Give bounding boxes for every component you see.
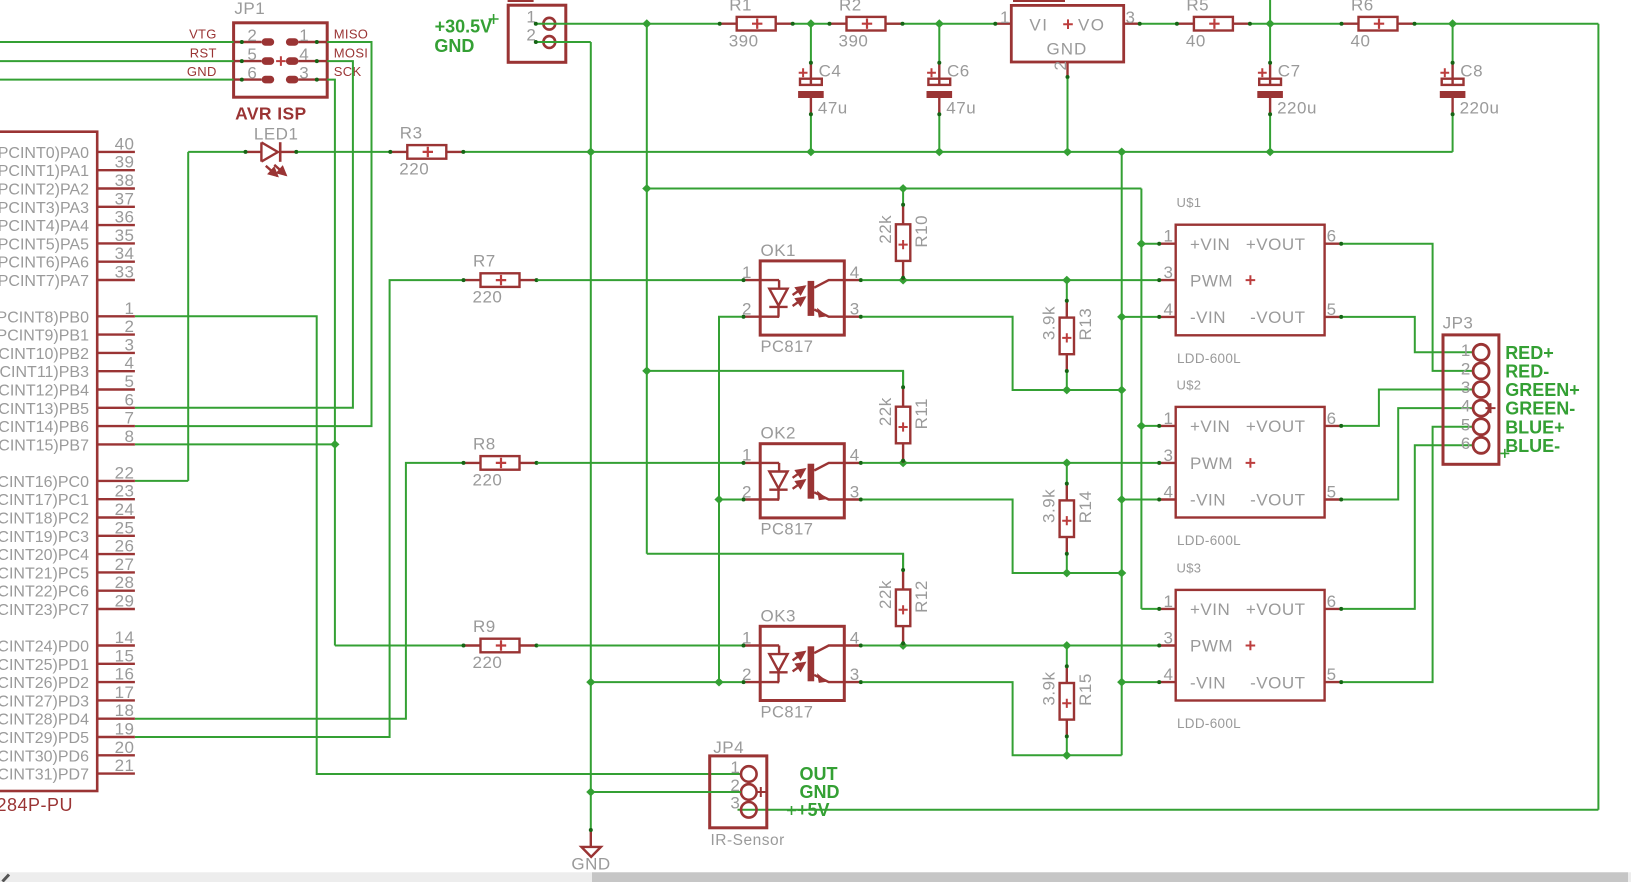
- svg-text:+5V: +5V: [797, 800, 830, 820]
- DC-DC converter U2 pin GND stub: [1066, 62, 1068, 79]
- capacitor C8 pin connection dots: [1451, 61, 1455, 65]
- wire U$3 +VOUT to BLUE-: [1343, 445, 1473, 609]
- svg-text:47u: 47u: [818, 99, 848, 118]
- connector JP3 origin cross: [1486, 403, 1496, 413]
- capacitor C6 pin connection dots: [937, 61, 941, 65]
- wire R10 top bus: [647, 188, 1142, 190]
- IC U1 pin 6 (PB5) stub: [97, 407, 135, 409]
- connector JP1 pin 5/4 connection dots: [240, 59, 244, 63]
- connector JP3 pad pin 3: [1473, 382, 1489, 398]
- DC-DC converter U2 pin VO stub: [1124, 23, 1142, 25]
- IC U1 pin 7 (PB6) stub: [97, 425, 135, 427]
- wire RST to left edge: [0, 60, 234, 62]
- capacitor C8 leads: [1451, 61, 1453, 85]
- svg-text:1: 1: [730, 758, 740, 777]
- DC-DC converter U2 pin VI stub: [994, 23, 1012, 25]
- capacitor C4 bottom wire: [810, 116, 812, 152]
- svg-text:1: 1: [1000, 8, 1010, 27]
- LED LED1 emission arrows: [266, 166, 278, 176]
- node junction R15 bottom: [1062, 751, 1071, 760]
- svg-text:VTG: VTG: [189, 27, 217, 42]
- resistor R14 pin connection dots: [1065, 482, 1069, 486]
- svg-text:ATmega1284P-PU: ATmega1284P-PU: [0, 795, 73, 815]
- IC U1 pin 4 (PB3) stub: [97, 370, 135, 372]
- resistor R14 body: [1060, 500, 1074, 537]
- IC U1 pin 3 (PB2) stub: [97, 352, 135, 354]
- svg-text:3: 3: [299, 63, 309, 82]
- capacitor C7 plus mark: [1258, 68, 1267, 77]
- wire GND bus horizontal: [464, 151, 1453, 153]
- svg-text:6: 6: [247, 63, 257, 82]
- capacitor C6 plus mark: [927, 68, 936, 77]
- resistor R11 pin connection dots: [901, 385, 905, 389]
- wire right rail bottom to JP4 pin 3: [738, 809, 1599, 811]
- svg-text:3: 3: [730, 794, 740, 813]
- capacitor C7 top plate: [1259, 79, 1281, 85]
- svg-text:3: 3: [1164, 263, 1174, 282]
- svg-text:40: 40: [1351, 31, 1371, 50]
- connector JP2 body: [508, 5, 566, 62]
- svg-text:(PCINT1)PA1: (PCINT1)PA1: [0, 163, 89, 180]
- svg-text:14: 14: [115, 628, 135, 647]
- LED driver U$2 body: [1176, 407, 1325, 518]
- LED driver U$2 origin cross: [1246, 458, 1256, 468]
- optocoupler OK1 body: [760, 261, 844, 335]
- optocoupler OK1 pin connection dots: [742, 278, 746, 282]
- wire PB7 to SCK riser: [135, 443, 335, 445]
- svg-text:36: 36: [115, 208, 135, 227]
- connector JP1 pad pin 3: [286, 76, 299, 84]
- capacitor C6 leads: [938, 61, 940, 85]
- wire R5 to R6 segment: [1251, 23, 1341, 25]
- svg-text:5: 5: [1461, 415, 1471, 434]
- capacitor C8 plus mark: [1440, 68, 1449, 77]
- wire U$1 +VOUT to RED-: [1343, 244, 1473, 371]
- svg-text:6: 6: [1327, 227, 1337, 246]
- optocoupler OK3 body: [760, 626, 844, 700]
- svg-text:OUT: OUT: [800, 764, 838, 784]
- wire +30.5V rail segment to R1: [647, 23, 719, 25]
- svg-text:R13: R13: [1076, 308, 1095, 341]
- svg-text:+VIN: +VIN: [1190, 600, 1230, 619]
- wire OK1 pin2 to cathode chain: [719, 317, 742, 682]
- capacitor C8 top wire: [1452, 24, 1454, 62]
- svg-text:U$3: U$3: [1177, 560, 1202, 575]
- resistor R8 body: [481, 456, 520, 470]
- svg-text:(PCINT21)PC5: (PCINT21)PC5: [0, 565, 89, 582]
- svg-text:OK3: OK3: [761, 606, 797, 625]
- svg-text:MISO: MISO: [334, 27, 368, 42]
- svg-text:+VOUT: +VOUT: [1246, 235, 1306, 254]
- svg-text:LED1: LED1: [254, 125, 299, 144]
- scrollbar track: [0, 872, 1631, 882]
- wire GND to left edge: [0, 79, 234, 81]
- svg-text:17: 17: [115, 683, 135, 702]
- node junction SCK / PB7: [330, 440, 339, 449]
- connector JP4 pad pin 2: [741, 784, 757, 800]
- svg-text:(PCINT31)PD7: (PCINT31)PD7: [0, 767, 89, 784]
- resistor R9 origin cross: [496, 640, 506, 650]
- optocoupler OK2 body: [760, 444, 844, 518]
- wire R2 to DC-DC VI: [886, 23, 994, 25]
- svg-text:15: 15: [115, 646, 135, 665]
- resistor R15 body: [1060, 683, 1074, 720]
- IC U1 pin 29 (PC7) stub: [97, 608, 135, 610]
- wire -VIN chain vertical: [1121, 152, 1123, 755]
- wire -VIN stub U$1: [1122, 316, 1158, 318]
- svg-text:PC817: PC817: [761, 521, 814, 539]
- wire GND stem vertical: [590, 42, 592, 829]
- svg-text:4: 4: [1461, 397, 1471, 416]
- optocoupler OK2 light arrows: [793, 469, 805, 478]
- svg-text:(PCINT11)PB3: (PCINT11)PB3: [0, 364, 89, 381]
- svg-text:-VIN: -VIN: [1190, 308, 1226, 327]
- connector JP4 pad pin 3: [741, 802, 757, 818]
- resistor R13 leads: [1066, 299, 1068, 317]
- svg-text:(PCINT5)PA5: (PCINT5)PA5: [0, 236, 89, 253]
- svg-text:4: 4: [850, 446, 860, 465]
- resistor R15 wire stubs: [1066, 646, 1068, 665]
- node junction rail / R11 bus: [642, 367, 651, 376]
- resistor R12 pin connection dots: [901, 568, 905, 572]
- svg-text:R14: R14: [1076, 491, 1095, 524]
- svg-text:RED-: RED-: [1505, 362, 1549, 382]
- optocoupler OK3 pin 1: [742, 644, 779, 646]
- svg-text:R6: R6: [1351, 0, 1374, 14]
- IC U1 pin 33 (PA7) stub: [97, 279, 135, 281]
- svg-text:220u: 220u: [1277, 99, 1317, 118]
- svg-text:LDD-600L: LDD-600L: [1177, 533, 1241, 548]
- svg-text:+VOUT: +VOUT: [1246, 600, 1306, 619]
- svg-text:21: 21: [115, 756, 135, 775]
- node junction R2/C6/VI: [935, 19, 944, 28]
- LED driver U$1 pin connection dots: [1157, 242, 1161, 246]
- node junction R10 top: [899, 184, 908, 193]
- node junction +VIN U$1: [1137, 239, 1146, 248]
- resistor R13 origin cross: [1062, 333, 1071, 342]
- svg-text:6: 6: [125, 390, 135, 409]
- resistor R9 body: [481, 639, 520, 653]
- connector JP1 body: [234, 23, 328, 97]
- wire OK3 pin3 route: [862, 682, 1121, 755]
- svg-text:22k: 22k: [876, 215, 895, 244]
- wire PD4 to R8 riser: [135, 463, 463, 719]
- IC U1 pin 19 (PD5) stub: [97, 736, 135, 738]
- IC U1 pin 16 (PD2) stub: [97, 681, 135, 683]
- svg-text:R9: R9: [473, 617, 496, 636]
- optocoupler OK2 phototransistor: [808, 464, 815, 499]
- svg-text:40: 40: [1186, 31, 1206, 50]
- IC U1 pin 34 (PA6) stub: [97, 261, 135, 263]
- svg-text:R10: R10: [912, 215, 931, 248]
- node junction chain / R14 bottom bus: [1117, 569, 1126, 578]
- IC U1 pin 2 (PB1) stub: [97, 333, 135, 335]
- resistor R14 wire stubs: [1066, 463, 1068, 482]
- resistor R8 origin cross: [496, 458, 506, 468]
- wire R6 to right rail: [1415, 23, 1598, 25]
- svg-text:(PCINT30)PD6: (PCINT30)PD6: [0, 748, 89, 765]
- node junction GND bus / DC-DC GND: [1063, 148, 1072, 157]
- resistor R7 pin connection dots: [462, 278, 466, 282]
- svg-text:PC817: PC817: [761, 338, 814, 356]
- svg-text:390: 390: [839, 31, 869, 50]
- resistor R14 leads: [1066, 482, 1068, 500]
- wire R9 feed from SCK riser: [335, 645, 463, 647]
- svg-text:GND: GND: [1047, 39, 1088, 58]
- svg-text:4: 4: [299, 45, 309, 64]
- svg-text:7: 7: [125, 409, 135, 428]
- connector JP1 pin 2/1 connection dots: [240, 40, 244, 44]
- svg-text:38: 38: [115, 171, 135, 190]
- LED driver U$3 pin stubs: [1157, 608, 1175, 610]
- optocoupler OK3 internal LED: [778, 646, 780, 655]
- svg-text:(PCINT6)PA6: (PCINT6)PA6: [0, 255, 89, 272]
- wire U$1 -VOUT to RED+: [1343, 317, 1473, 352]
- optocoupler OK3 pin connection dots: [742, 644, 746, 648]
- svg-text:(PCINT4)PA4: (PCINT4)PA4: [0, 218, 89, 235]
- wire +VIN stub U$1: [1141, 243, 1157, 245]
- connector JP3 body: [1443, 335, 1499, 464]
- svg-text:GND: GND: [571, 855, 610, 874]
- DC-DC converter U2 body: [1011, 5, 1123, 62]
- connector JP1 pad pin 4: [286, 57, 299, 65]
- IC U1 pin 1 (PB0) stub: [97, 315, 135, 317]
- svg-text:R3: R3: [400, 124, 423, 143]
- node junction R14 bottom: [1062, 569, 1071, 578]
- svg-text:(PCINT19)PC3: (PCINT19)PC3: [0, 529, 89, 546]
- resistor R10 body: [896, 224, 910, 261]
- svg-text:R12: R12: [912, 580, 931, 613]
- resistor R5 leads: [1176, 23, 1194, 25]
- capacitor C4 bottom plate: [798, 91, 824, 98]
- node junction chain / -VIN U$2: [1117, 495, 1126, 504]
- svg-text:(PCINT13)PB5: (PCINT13)PB5: [0, 401, 89, 418]
- resistor R10 wire stub: [902, 189, 904, 207]
- resistor R15 leads: [1066, 665, 1068, 683]
- wire OK1 pin3 route: [862, 317, 1121, 390]
- connector JP3 pad pin 2: [1473, 363, 1489, 379]
- svg-text:1: 1: [1164, 409, 1174, 428]
- svg-text:VI: VI: [1029, 16, 1048, 35]
- capacitor C6 top plate: [928, 79, 950, 85]
- svg-text:RED+: RED+: [1505, 343, 1554, 363]
- svg-text:(PCINT0)PA0: (PCINT0)PA0: [0, 145, 89, 162]
- capacitor C8 bottom wire: [1452, 116, 1454, 152]
- resistor R5 pin connection dots: [1175, 22, 1179, 26]
- svg-text:220: 220: [473, 288, 503, 307]
- svg-text:(PCINT22)PC6: (PCINT22)PC6: [0, 584, 89, 601]
- svg-text:4: 4: [850, 628, 860, 647]
- svg-text:29: 29: [115, 592, 135, 611]
- resistor R6 body: [1359, 17, 1398, 31]
- svg-text:LDD-600L: LDD-600L: [1177, 351, 1241, 366]
- wire PC0 to LED riser: [135, 480, 188, 482]
- wire -VIN stub U$2: [1122, 499, 1158, 501]
- svg-text:PC817: PC817: [761, 703, 814, 721]
- resistor R3 body: [407, 145, 446, 159]
- svg-text:PWM: PWM: [1190, 271, 1233, 290]
- svg-text:+30.5V: +30.5V: [435, 17, 493, 37]
- wire R11 top bus: [647, 371, 903, 388]
- capacitor C7 pin connection dots: [1268, 61, 1272, 65]
- connector JP1 pad pin 2: [262, 38, 275, 46]
- svg-text:LDD-600L: LDD-600L: [1177, 716, 1241, 731]
- capacitor C4 leads: [810, 61, 812, 85]
- wire OK3 pin4 to U$3 PWM: [862, 645, 1157, 647]
- connector JP4 origin cross: [756, 787, 766, 797]
- optocoupler OK3 pin 2: [742, 681, 779, 683]
- resistor R7 origin cross: [496, 275, 506, 285]
- svg-text:+VIN: +VIN: [1190, 235, 1230, 254]
- node junction GND stem / JP4 GND: [586, 788, 595, 797]
- svg-text:JP3: JP3: [1443, 313, 1474, 332]
- IC U1 pin 21 (PD7) stub: [97, 772, 135, 774]
- node junction +VIN U$2: [1137, 422, 1146, 431]
- LED driver U$1 origin cross: [1246, 275, 1256, 285]
- resistor R6 origin cross: [1374, 19, 1384, 29]
- IC U1 pin 23 (PC1) stub: [97, 498, 135, 500]
- resistor R2 body: [847, 17, 886, 31]
- node junction GND bus / -VIN chain: [1117, 148, 1126, 157]
- capacitor C6 top wire: [938, 24, 940, 62]
- svg-text:C4: C4: [819, 62, 842, 81]
- optocoupler OK1 light arrows: [793, 286, 805, 295]
- svg-text:5: 5: [125, 372, 135, 391]
- wire R7 to OK1 pin1: [537, 279, 742, 281]
- wire +VIN stub U$3: [1141, 608, 1157, 610]
- wire JP4 GND: [591, 791, 741, 793]
- node junction R5/C7: [1266, 19, 1275, 28]
- svg-text:26: 26: [115, 537, 135, 556]
- capacitor C6 bottom wire: [938, 116, 940, 152]
- IC U1 pin 26 (PC4) stub: [97, 553, 135, 555]
- svg-text:4: 4: [1164, 483, 1174, 502]
- connector JP2 pad pin 2: [543, 36, 555, 48]
- svg-text:39: 39: [115, 153, 135, 172]
- svg-text:-VOUT: -VOUT: [1250, 673, 1305, 692]
- node junction chain / -VIN U$3: [1117, 678, 1126, 687]
- svg-text:R7: R7: [473, 252, 496, 271]
- resistor R9 pin connection dots: [462, 644, 466, 648]
- svg-text:19: 19: [115, 720, 135, 739]
- capacitor C8 bottom plate: [1440, 91, 1466, 98]
- wire VO to R5: [1141, 23, 1176, 25]
- resistor R5 body: [1194, 17, 1233, 31]
- svg-text:(PCINT23)PC7: (PCINT23)PC7: [0, 602, 89, 619]
- resistor R11 origin cross: [899, 422, 908, 431]
- wire LED1 to R3: [298, 151, 390, 153]
- node junction cathode chain / OK3 pin2: [714, 678, 723, 687]
- wire right rail vertical: [1597, 24, 1599, 810]
- svg-text:25: 25: [115, 518, 135, 537]
- svg-text:3: 3: [850, 300, 860, 319]
- svg-text:(PCINT27)PD3: (PCINT27)PD3: [0, 693, 89, 710]
- wire -VIN stub U$3: [1122, 681, 1158, 683]
- resistor R11 wire stub: [902, 371, 904, 389]
- svg-text:3: 3: [1164, 629, 1174, 648]
- svg-text:3: 3: [1126, 8, 1136, 27]
- IC U1 pin 38 (PA2) stub: [97, 187, 135, 189]
- node junction rail / R10 bus: [642, 184, 651, 193]
- node junction GND bus / C7: [1266, 148, 1275, 157]
- resistor R2 origin cross: [862, 19, 872, 29]
- svg-text:-VOUT: -VOUT: [1250, 308, 1305, 327]
- IC U1 pin 18 (PD4) stub: [97, 718, 135, 720]
- LED LED1 cathode bar: [279, 142, 282, 162]
- node junction R13 top: [1062, 276, 1071, 285]
- resistor R14 origin cross: [1062, 516, 1071, 525]
- connector JP4 body: [710, 756, 767, 828]
- svg-text:(PCINT28)PD4: (PCINT28)PD4: [0, 712, 89, 729]
- svg-text:4: 4: [1164, 300, 1174, 319]
- node junction R10 bottom: [899, 276, 908, 285]
- resistor R1 leads: [718, 23, 736, 25]
- svg-text:1: 1: [1461, 341, 1471, 360]
- svg-text:OK2: OK2: [761, 424, 797, 443]
- svg-text:(PCINT12)PB4: (PCINT12)PB4: [0, 383, 89, 400]
- connector JP1 pad pin 6: [262, 76, 275, 84]
- svg-text:GREEN-: GREEN-: [1505, 399, 1575, 419]
- resistor R7 leads: [462, 279, 480, 281]
- resistor R12 body: [896, 590, 910, 627]
- svg-text:JP4: JP4: [713, 738, 744, 757]
- LED driver U$1 pin stubs: [1157, 242, 1175, 244]
- IC U1 pin 25 (PC3) stub: [97, 535, 135, 537]
- svg-text:27: 27: [115, 555, 135, 574]
- svg-text:22: 22: [115, 463, 135, 482]
- IC U1 pin 36 (PA4) stub: [97, 224, 135, 226]
- wire R1-R2 segment: [794, 23, 830, 25]
- wire U$3 -VOUT to BLUE+: [1343, 427, 1473, 682]
- optocoupler OK3 phototransistor: [808, 646, 815, 681]
- svg-text:220: 220: [473, 653, 503, 672]
- svg-text:22k: 22k: [876, 397, 895, 426]
- svg-text:2: 2: [1461, 360, 1471, 379]
- svg-text:1: 1: [1164, 592, 1174, 611]
- scrollbar left arrow: [3, 875, 10, 882]
- svg-text:220: 220: [473, 471, 503, 490]
- wire +VIN stub U$2: [1141, 425, 1157, 427]
- svg-text:GREEN+: GREEN+: [1505, 380, 1580, 400]
- wire +30.5V from JP2 pin 1: [536, 23, 647, 25]
- svg-text:(PCINT20)PC4: (PCINT20)PC4: [0, 547, 89, 564]
- IC U1 pin 35 (PA5) stub: [97, 242, 135, 244]
- resistor R11 body: [896, 407, 910, 444]
- svg-text:23: 23: [115, 482, 135, 501]
- svg-text:-VIN: -VIN: [1190, 673, 1226, 692]
- resistor R10 leads: [902, 206, 904, 224]
- wire MISO route: [135, 42, 372, 426]
- svg-text:6: 6: [1327, 409, 1337, 428]
- connector JP3 pad pin 4: [1473, 400, 1489, 416]
- IC U1 pin 40 (PA0) stub: [97, 151, 135, 153]
- IC U1 pin 24 (PC2) stub: [97, 516, 135, 518]
- resistor R10 origin cross: [899, 240, 908, 249]
- svg-text:R11: R11: [912, 398, 931, 429]
- svg-text:16: 16: [115, 665, 135, 684]
- svg-text:6: 6: [1327, 592, 1337, 611]
- svg-text:BLUE-: BLUE-: [1505, 436, 1560, 456]
- node junction cathode chain / OK2 pin2: [714, 495, 723, 504]
- LED LED1 leads: [244, 151, 262, 153]
- connector JP3 pad pin 1: [1473, 344, 1489, 360]
- svg-text:3.9k: 3.9k: [1040, 489, 1059, 523]
- svg-text:OK1: OK1: [761, 241, 797, 260]
- resistor R3 leads: [389, 151, 407, 153]
- svg-text:220u: 220u: [1460, 99, 1500, 118]
- resistor R3 pin connection dots: [388, 150, 392, 154]
- DC-DC converter U2 origin cross: [1063, 19, 1073, 29]
